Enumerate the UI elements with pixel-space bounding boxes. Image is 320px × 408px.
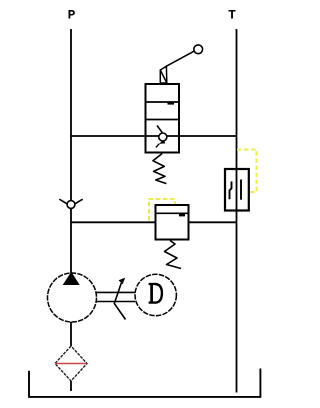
svg-text:P: P <box>68 8 76 23</box>
svg-text:T: T <box>228 8 236 23</box>
